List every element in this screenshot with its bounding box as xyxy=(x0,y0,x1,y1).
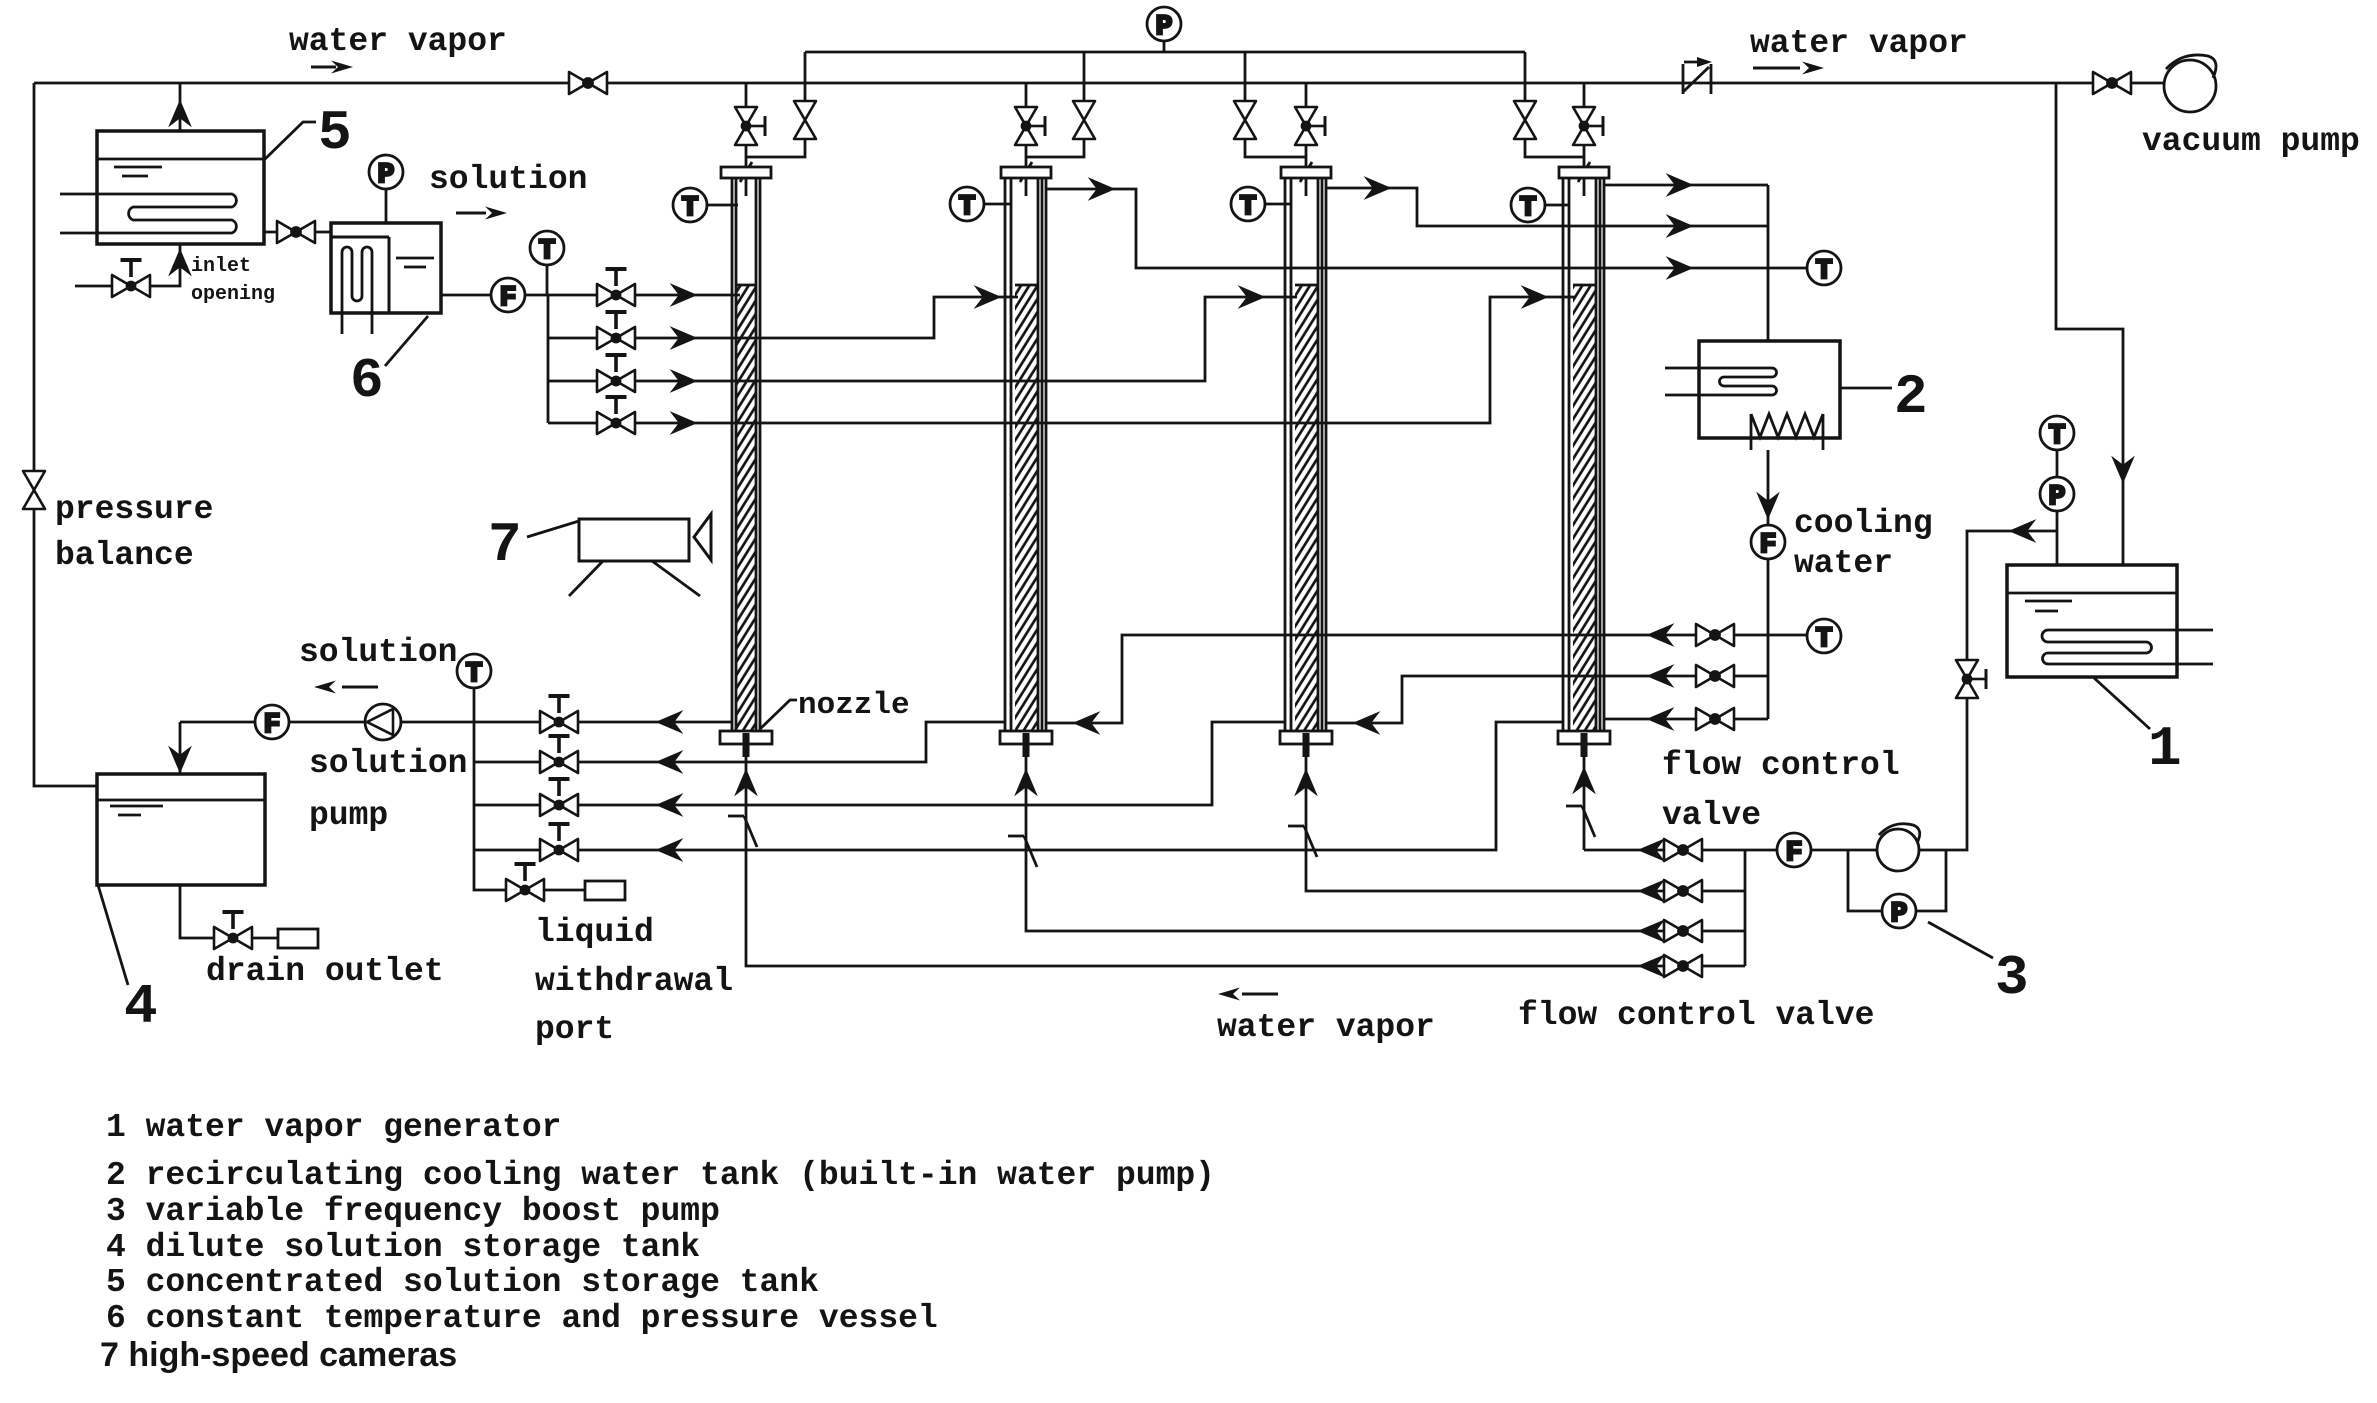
wire: inlet row 1 xyxy=(548,294,740,297)
svg-text:1 water vapor generator: 1 water vapor generator xyxy=(106,1109,561,1146)
valve: col1 vapor valve (handle) xyxy=(735,107,765,145)
wire: inlet opening line xyxy=(75,244,180,286)
wire: P manifold xyxy=(805,51,1525,54)
svg-text:balance: balance xyxy=(55,537,194,574)
svg-text:liquid: liquid xyxy=(535,914,654,951)
valve: generator outlet valve xyxy=(1956,660,1986,698)
wire: col2 cooling outlet to T xyxy=(1046,189,1807,268)
wire: header drop to generator xyxy=(2056,83,2123,565)
wire: cooling water supply drop xyxy=(1767,450,1770,525)
instrument: P gauge on manifold xyxy=(1163,40,1166,52)
valve: pressure balance xyxy=(23,471,45,509)
valve: header isolation valve xyxy=(569,72,607,94)
instrument: T solution return xyxy=(457,654,491,690)
wire: vessel6 outlet with F meter xyxy=(441,294,548,297)
svg-text:inlet: inlet xyxy=(191,255,251,278)
wire: generator vapor line with boost pump xyxy=(1584,849,1877,852)
wire: solution return row col1 xyxy=(180,721,732,724)
instrument: T above inlet manifold xyxy=(546,264,549,295)
column 2 absorber tube xyxy=(1000,83,1052,757)
svg-text:5: 5 xyxy=(318,101,352,165)
svg-text:withdrawal: withdrawal xyxy=(535,963,733,1000)
instrument: T col1 xyxy=(706,204,738,207)
wire: return row col3 xyxy=(474,722,1284,805)
wire: return row col4 xyxy=(474,722,1563,850)
wire: return row col2 xyxy=(474,722,1005,762)
pump 3: variable frequency boost pump xyxy=(1877,824,1920,871)
solution pump xyxy=(365,704,401,740)
valve: tank5 outlet xyxy=(277,221,315,243)
column 1 absorber tube xyxy=(720,83,772,757)
wire: col1 P-manifold drop xyxy=(804,52,807,101)
valve: flow control valve col4 xyxy=(1664,839,1702,861)
svg-text:water: water xyxy=(1794,545,1893,582)
svg-text:3 variable frequency boost pum: 3 variable frequency boost pump xyxy=(106,1193,720,1230)
svg-text:2: 2 xyxy=(1894,365,1928,429)
valve: liquid withdrawal xyxy=(506,864,544,901)
valve: drain xyxy=(214,912,252,949)
svg-text:1: 1 xyxy=(2148,717,2182,781)
svg-text:cooling: cooling xyxy=(1794,505,1933,542)
wire: inlet row 4 xyxy=(548,297,1576,423)
check valve on header right xyxy=(1683,57,1712,94)
wire: inlet row 3 xyxy=(548,297,1297,381)
svg-text:solution: solution xyxy=(429,161,587,198)
label leader 6 xyxy=(385,316,428,366)
instrument: T col4 xyxy=(1544,204,1568,207)
svg-text:opening: opening xyxy=(191,283,275,306)
label leader 2 xyxy=(1840,387,1892,390)
svg-text:7 high-speed cameras: 7 high-speed cameras xyxy=(100,1336,457,1374)
valve: col4 vapor valve (handle) xyxy=(1573,107,1603,145)
svg-text:drain outlet: drain outlet xyxy=(206,953,444,990)
coil tank5 xyxy=(60,194,236,233)
valve: col4 manifold valve xyxy=(1514,101,1536,139)
wire: col3 P-manifold drop xyxy=(1244,52,1247,101)
wire: drop into tank4 xyxy=(179,722,182,774)
vessel6 coil xyxy=(342,247,372,334)
valve: inlet opening xyxy=(112,260,150,297)
svg-text:6: 6 xyxy=(350,349,384,413)
svg-text:2 recirculating cooling water: 2 recirculating cooling water tank (buil… xyxy=(106,1157,1215,1194)
tank 1: water vapor generator xyxy=(2007,565,2177,677)
svg-text:valve: valve xyxy=(1662,797,1761,834)
instrument: T cooling supply xyxy=(1807,619,1841,655)
wire: inlet manifold vertical xyxy=(547,295,550,423)
svg-text:6 constant temperature and pre: 6 constant temperature and pressure vess… xyxy=(106,1300,938,1337)
svg-text:3: 3 xyxy=(1995,946,2029,1010)
wire: col4 cooling outlet xyxy=(1604,184,1768,187)
instrument: T col3 xyxy=(1264,203,1290,206)
svg-text:4: 4 xyxy=(124,975,158,1039)
column 4 absorber tube xyxy=(1558,83,1610,757)
svg-text:pump: pump xyxy=(309,797,388,834)
valve: cooling supply col2 xyxy=(1696,624,1734,646)
valve: col2 vapor valve (handle) xyxy=(1015,107,1045,145)
vessel 6: constant temperature and pressure vessel xyxy=(331,223,441,313)
instrument: T generator line xyxy=(2040,416,2074,452)
tank 4: dilute solution storage tank xyxy=(97,774,265,885)
wire: inlet row 2 xyxy=(548,297,1018,338)
label leader 3 xyxy=(1928,922,1993,958)
wire: pump3 to generator riser xyxy=(1919,698,1967,850)
camera 7: high-speed camera xyxy=(527,514,711,596)
instrument: T cooling return xyxy=(1807,251,1841,287)
tank 5: concentrated solution storage tank xyxy=(97,131,264,244)
instrument: F cooling water xyxy=(1751,525,1785,561)
wire: tank5 riser to header xyxy=(179,83,182,131)
wire: P loop under pump3 xyxy=(1848,850,1946,911)
wire: col3 cooling outlet xyxy=(1326,188,1768,226)
wire: vapor feed riser col2 xyxy=(1026,744,1745,931)
svg-text:pressure: pressure xyxy=(55,491,213,528)
drain outlet port xyxy=(278,929,318,948)
label leader 1 xyxy=(2093,677,2150,729)
wire: cooling supply row to col2 xyxy=(1046,635,1807,723)
wire: header continues to vacuum pump xyxy=(2131,82,2164,85)
svg-text:nozzle: nozzle xyxy=(798,688,910,723)
liquid withdrawal port xyxy=(585,881,625,900)
svg-text:water vapor: water vapor xyxy=(1750,25,1968,62)
instrument: P boost pump xyxy=(1882,894,1916,930)
wire: cooling water return manifold xyxy=(1767,185,1770,341)
wire: col2 P-manifold drop xyxy=(1083,52,1086,101)
tank2 coil xyxy=(1665,368,1777,395)
wire: cooling supply row to col3 xyxy=(1326,676,1768,723)
wire: vapor feed riser col3 xyxy=(1306,744,1745,891)
wire: col4 P-manifold drop xyxy=(1524,52,1527,101)
wire: main water vapor header xyxy=(34,82,2094,85)
svg-text:vacuum pump: vacuum pump xyxy=(2142,123,2360,160)
svg-text:7: 7 xyxy=(488,513,522,577)
svg-text:water vapor: water vapor xyxy=(1217,1009,1435,1046)
wire: cooling supply row to col4 xyxy=(1604,718,1768,721)
wire: vapor feed manifold vertical xyxy=(1744,850,1747,966)
svg-text:water vapor: water vapor xyxy=(289,23,507,60)
wire: vapor feed riser col1 xyxy=(746,744,1745,966)
instrument: T col2 xyxy=(983,203,1010,206)
tank1 coil xyxy=(2042,630,2213,664)
valve: col3 vapor valve (handle) xyxy=(1295,107,1325,145)
valve: cooling supply col4 xyxy=(1696,708,1734,730)
vacuum pump xyxy=(2164,55,2216,112)
arrow under water vapor xyxy=(311,66,336,69)
valve: col3 manifold valve xyxy=(1234,101,1256,139)
tank 2: recirculating cooling water tank xyxy=(1699,341,1840,438)
svg-text:solution: solution xyxy=(299,634,457,671)
vessel6 water level xyxy=(396,257,434,260)
column 3 absorber tube xyxy=(1280,83,1332,757)
wire: left pressure-balance drop xyxy=(33,83,36,473)
instrument: P generator line xyxy=(2040,477,2074,513)
svg-text:5 concentrated solution storag: 5 concentrated solution storage tank xyxy=(106,1264,819,1301)
valve: cooling supply col3 xyxy=(1696,665,1734,687)
water level tank5 xyxy=(114,166,162,169)
wire: tank4 drain xyxy=(180,885,214,938)
wire: vapor feed riser col4 xyxy=(1583,744,1586,850)
valve: col1 manifold valve xyxy=(794,101,816,139)
svg-text:port: port xyxy=(535,1011,614,1048)
tank2 heater xyxy=(1751,414,1823,437)
svg-text:4 dilute solution storage tank: 4 dilute solution storage tank xyxy=(106,1229,700,1266)
svg-text:flow control valve: flow control valve xyxy=(1518,997,1874,1034)
svg-text:solution: solution xyxy=(309,745,467,782)
wire: withdrawal manifold xyxy=(474,722,506,890)
valve: vacuum pump isolation xyxy=(2093,72,2131,94)
wire: tank5 to vessel6 xyxy=(264,231,331,234)
valve: col2 manifold valve xyxy=(1073,101,1095,139)
label leader 5 xyxy=(264,122,316,160)
instrument: F boost line xyxy=(1777,833,1811,869)
label leader 4 xyxy=(98,885,128,985)
instrument: P on vessel6 xyxy=(385,188,388,223)
svg-text:flow control: flow control xyxy=(1662,747,1900,784)
instrument: F solution return xyxy=(255,705,289,741)
valve: return col1 xyxy=(540,696,578,733)
